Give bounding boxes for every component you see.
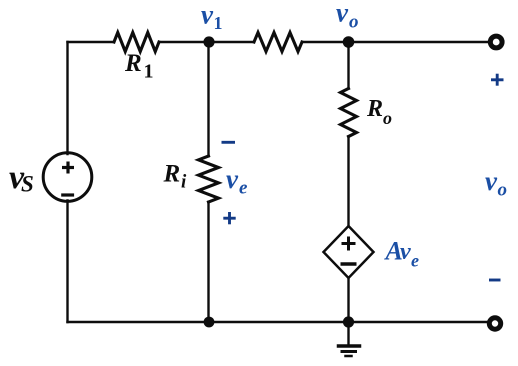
- svg-text:e: e: [239, 178, 248, 199]
- svg-text:v: v: [400, 239, 411, 265]
- svg-text:o: o: [498, 180, 508, 201]
- svg-text:1: 1: [214, 13, 223, 33]
- svg-text:R: R: [124, 50, 142, 77]
- svg-text:v: v: [201, 0, 214, 30]
- svg-text:i: i: [181, 172, 187, 193]
- svg-text:v: v: [226, 164, 239, 194]
- svg-text:R: R: [366, 96, 383, 122]
- svg-text:v: v: [336, 0, 349, 28]
- svg-text:o: o: [349, 12, 359, 33]
- svg-text:R: R: [163, 161, 181, 188]
- svg-text:o: o: [383, 108, 392, 128]
- svg-text:e: e: [411, 251, 419, 271]
- svg-text:S: S: [21, 172, 34, 197]
- svg-text:v: v: [485, 166, 498, 196]
- svg-text:1: 1: [144, 61, 154, 83]
